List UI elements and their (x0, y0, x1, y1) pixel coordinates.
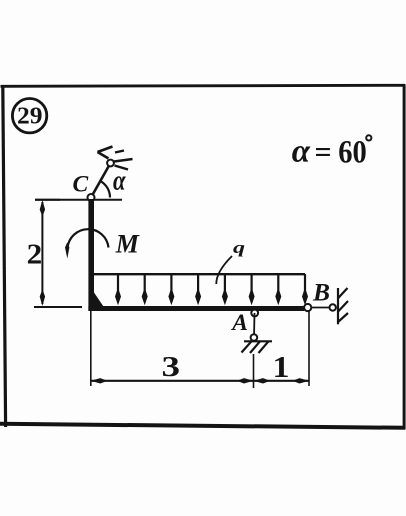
label q (233, 238, 246, 257)
dimension 2 extension bottom (34, 306, 82, 308)
svg-text:C: C (73, 172, 89, 198)
load arrow 4 (195, 274, 201, 305)
link at A (253, 313, 256, 338)
svg-text:α: α (113, 165, 126, 196)
dimension 2 extension top (35, 199, 60, 201)
svg-text:B: B (312, 278, 330, 307)
svg-text:α: α (292, 134, 311, 170)
svg-text:M: M (115, 229, 140, 258)
label M (115, 229, 140, 258)
svg-text:3: 3 (162, 351, 181, 383)
bottom dimension line (91, 378, 309, 383)
corner fillet (94, 293, 104, 307)
leader line for q (216, 256, 232, 284)
svg-text:2: 2 (27, 239, 43, 270)
label 1 (273, 350, 290, 384)
load arrow 8 (302, 274, 308, 305)
vertical member (88, 199, 94, 311)
extension line below corner (90, 311, 92, 386)
moment M arc arrow (65, 229, 109, 258)
svg-text:1: 1 (273, 350, 290, 384)
label C (73, 172, 89, 198)
angle alpha arc (100, 181, 110, 198)
distributed load q top line (91, 273, 305, 275)
extension line below A (253, 354, 255, 388)
border frame (0, 84, 405, 429)
load arrow 6 (249, 274, 255, 305)
load arrow 2 (142, 274, 148, 305)
svg-text:=: = (315, 136, 332, 169)
label A (230, 310, 248, 336)
problem number badge 29 (12, 99, 46, 133)
link support ground strokes (98, 147, 133, 170)
horizontal reference line through C (35, 199, 122, 201)
svg-text:60: 60 (338, 134, 367, 170)
pin under beam at A (251, 310, 258, 317)
angle value label alpha = 60 deg (292, 134, 372, 171)
pin at B (304, 304, 311, 311)
horizontal beam (88, 306, 304, 311)
load arrow 5 (222, 274, 228, 305)
load arrow 3 (168, 274, 174, 305)
upper pin of link support (107, 160, 114, 167)
inclined link support rod at C (91, 163, 111, 198)
label alpha (113, 165, 126, 196)
wall at B (338, 288, 348, 324)
link at B (311, 304, 336, 310)
extension line below B (308, 312, 310, 387)
svg-text:29: 29 (17, 104, 43, 130)
load arrow 1 (115, 274, 121, 305)
label 3 (162, 351, 181, 383)
svg-text:q: q (233, 238, 246, 257)
svg-text:A: A (230, 310, 248, 336)
load arrow 7 (275, 274, 281, 305)
ground at A (242, 341, 273, 353)
lower pin at A (251, 334, 258, 341)
dimension 2 line (40, 200, 45, 306)
pin at C (88, 194, 95, 201)
label 2 (27, 239, 43, 270)
label B (312, 278, 330, 307)
